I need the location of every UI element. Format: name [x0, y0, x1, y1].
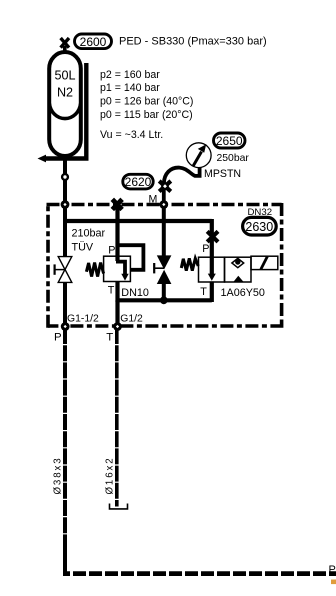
- node junction dot on T line: [160, 296, 168, 304]
- svg-text:p0 = 115 bar (20°C): p0 = 115 bar (20°C): [100, 109, 193, 121]
- svg-text:G1-1/2: G1-1/2: [67, 313, 99, 324]
- svg-text:T: T: [106, 332, 113, 344]
- svg-text:P: P: [329, 564, 336, 576]
- shut-off valve filled on M branch: [154, 255, 172, 284]
- accumulator bracket with left arrow: [38, 63, 89, 162]
- node junction dot port P: [61, 322, 70, 331]
- oval tag 2600: [75, 34, 112, 49]
- accumulator bladder arc: [49, 104, 80, 119]
- accumulator shell 50L N2: [49, 52, 81, 156]
- solenoid valve poppet diamond with ball: [232, 258, 244, 267]
- svg-text:p1 = 140 bar: p1 = 140 bar: [100, 82, 160, 94]
- node junction dot accumulator line on border: [61, 200, 70, 209]
- solenoid valve square 1 flow arrow: [208, 257, 216, 281]
- svg-text:P: P: [202, 243, 209, 255]
- test point X at port M: [159, 181, 171, 208]
- svg-text:2630: 2630: [245, 220, 273, 234]
- wire M branch to T line: [162, 284, 166, 300]
- svg-text:250bar: 250bar: [217, 153, 250, 164]
- oval tag 2630: [243, 217, 277, 235]
- plugged port X on border: [112, 199, 122, 209]
- wire internal P header line: [63, 219, 212, 223]
- svg-text:Ø16x2: Ø16x2: [105, 456, 116, 494]
- svg-text:PED - SB330 (Pmax=330 bar): PED - SB330 (Pmax=330 bar): [119, 35, 267, 47]
- node junction dot port M on border: [159, 200, 168, 209]
- relief valve DN10 internal arrow: [116, 262, 129, 281]
- pressure gauge circle: [186, 143, 211, 168]
- wire internal T line: [118, 298, 212, 302]
- svg-text:T: T: [108, 285, 115, 297]
- oval tag 2620: [123, 174, 153, 189]
- wire P line through manifold: [63, 282, 67, 328]
- svg-text:2620: 2620: [125, 175, 152, 189]
- solenoid valve square 1 open position: [199, 257, 225, 282]
- svg-text:TÜV: TÜV: [72, 242, 94, 254]
- wire DN10 T down: [115, 281, 119, 302]
- wire M branch vertical: [162, 206, 166, 256]
- wire accumulator down to manifold P line: [63, 156, 67, 256]
- pipe P line down: [63, 328, 67, 574]
- solenoid valve poppet seat arrow: [233, 276, 244, 283]
- wire solenoid T drop: [210, 281, 214, 302]
- svg-text:Ø38x3: Ø38x3: [53, 456, 64, 494]
- relief valve DN10 spring: [86, 263, 103, 277]
- node junction dot port T: [113, 322, 122, 331]
- node open ring on accumulator line: [62, 174, 68, 180]
- pipe T line down: [115, 328, 119, 507]
- svg-text:DN10: DN10: [121, 287, 149, 299]
- spec text block: [100, 69, 193, 141]
- gas charging valve X on accumulator top: [61, 38, 69, 54]
- wire DN10 branch vertical: [115, 206, 119, 261]
- relief valve DN10 pilot loop: [118, 245, 144, 270]
- orange mark at bottom right: [331, 580, 336, 585]
- svg-text:50L: 50L: [54, 68, 75, 82]
- svg-text:G1/2: G1/2: [120, 313, 143, 324]
- svg-text:MPSTN: MPSTN: [204, 168, 241, 180]
- svg-text:Vu = ~3.4 Ltr.: Vu = ~3.4 Ltr.: [100, 129, 163, 141]
- svg-text:2600: 2600: [80, 35, 107, 49]
- svg-text:p0 = 126 bar (40°C): p0 = 126 bar (40°C): [100, 95, 193, 107]
- svg-text:p2 = 160 bar: p2 = 160 bar: [100, 69, 160, 81]
- manifold block dashed border: [47, 203, 284, 328]
- shut-off valve TUV (outline): [55, 257, 72, 283]
- pressure gauge needle arrow: [193, 144, 206, 166]
- solenoid valve spring: [181, 258, 198, 270]
- pipe T open end bracket: [110, 504, 128, 509]
- solenoid valve square 2 closed position: [225, 257, 252, 282]
- gauge hose curve to test point: [164, 167, 200, 184]
- oval tag 2650: [214, 133, 246, 148]
- pipe P bottom run dashed: [63, 546, 67, 573]
- solenoid actuator box: [251, 256, 278, 269]
- wire corner to solenoid P: [210, 219, 214, 258]
- svg-text:P: P: [54, 332, 62, 344]
- svg-text:T: T: [200, 286, 207, 298]
- svg-text:210bar: 210bar: [72, 228, 106, 240]
- svg-text:P: P: [108, 245, 115, 257]
- svg-text:N2: N2: [57, 86, 73, 100]
- wire T port drop: [115, 300, 119, 328]
- relief valve DN10 body: [104, 256, 131, 281]
- plugged port X on solenoid P line: [207, 231, 218, 242]
- svg-text:1A06Y50: 1A06Y50: [221, 287, 265, 299]
- svg-text:2650: 2650: [216, 134, 243, 148]
